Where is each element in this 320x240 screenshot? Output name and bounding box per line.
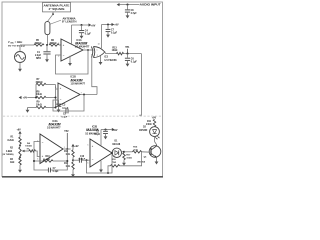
svg-text:= 1kHz: = 1kHz <box>15 42 23 44</box>
svg-text:4.7μF: 4.7μF <box>131 12 138 15</box>
svg-text:2.2pF: 2.2pF <box>35 55 42 57</box>
svg-text:+9V: +9V <box>91 24 96 27</box>
svg-text:1: 1 <box>84 48 85 50</box>
svg-text:5: 5 <box>55 87 56 89</box>
svg-text:1: 1 <box>64 147 65 149</box>
svg-text:6: 6 <box>87 163 88 165</box>
svg-text:4" SQUARE: 4" SQUARE <box>49 8 66 11</box>
svg-text:+9V: +9V <box>17 130 22 132</box>
svg-text:20.5kΩ: 20.5kΩ <box>43 159 50 161</box>
svg-text:NPO: NPO <box>36 58 41 60</box>
svg-text:1kΩ: 1kΩ <box>10 162 15 164</box>
svg-text:2: 2 <box>97 55 98 57</box>
svg-text:1/2 MAX4477: 1/2 MAX4477 <box>47 127 61 130</box>
svg-text:TP2: TP2 <box>64 131 69 133</box>
svg-text:10kΩ: 10kΩ <box>112 50 118 52</box>
svg-text:1/4 74HC86: 1/4 74HC86 <box>104 59 117 62</box>
svg-text:0.1μF: 0.1μF <box>94 134 101 136</box>
svg-text:5: 5 <box>87 145 88 147</box>
svg-text:100kΩ: 100kΩ <box>25 146 32 148</box>
svg-text:1/2 MAX4477: 1/2 MAX4477 <box>75 46 90 49</box>
svg-text:1: 1 <box>97 50 98 52</box>
svg-text:8" LENGTH: 8" LENGTH <box>62 22 77 24</box>
svg-text:R13: R13 <box>112 47 117 49</box>
svg-text:8.2kΩ: 8.2kΩ <box>8 140 14 142</box>
svg-text:7: 7 <box>81 93 82 95</box>
svg-text:7: 7 <box>113 151 114 153</box>
svg-text:+9V: +9V <box>74 146 79 148</box>
svg-text:0.1μF: 0.1μF <box>111 33 118 35</box>
svg-text:3: 3 <box>58 43 59 45</box>
svg-text:MAXIM: MAXIM <box>75 42 87 46</box>
svg-text:1N4148: 1N4148 <box>112 143 121 146</box>
svg-text:+9V: +9V <box>114 25 119 27</box>
svg-text:ANTENNA PLATE: ANTENNA PLATE <box>44 5 71 8</box>
svg-text:2: 2 <box>58 56 59 58</box>
svg-text:10kΩ: 10kΩ <box>126 158 132 160</box>
svg-text:+9V: +9V <box>23 98 28 100</box>
svg-text:0.1μF: 0.1μF <box>85 34 92 36</box>
svg-text:+9V: +9V <box>113 130 118 132</box>
svg-text:(10 TURNS): (10 TURNS) <box>2 154 14 156</box>
svg-text:AUDIO INPUT: AUDIO INPUT <box>140 4 162 7</box>
svg-text:1/2 MAX4477: 1/2 MAX4477 <box>71 83 86 86</box>
svg-text:CR5360: CR5360 <box>139 130 148 132</box>
svg-text:0.22μF: 0.22μF <box>79 159 86 161</box>
svg-text:6: 6 <box>55 102 56 104</box>
svg-text:0.1μF: 0.1μF <box>62 117 68 119</box>
svg-text:MAXIM: MAXIM <box>71 78 83 82</box>
svg-text:ANTENNA: ANTENNA <box>63 17 76 20</box>
svg-text:1kΩ: 1kΩ <box>66 154 71 156</box>
svg-text:5V TO 9V p-p: 5V TO 9V p-p <box>8 46 26 48</box>
svg-text:4.9kΩ: 4.9kΩ <box>6 150 12 153</box>
svg-text:1kΩ: 1kΩ <box>66 166 71 168</box>
svg-text:2: 2 <box>37 141 38 143</box>
svg-text:75Ω: 75Ω <box>112 162 116 164</box>
svg-text:0.1μF: 0.1μF <box>53 171 60 173</box>
svg-text:3: 3 <box>37 159 38 161</box>
svg-text:TP1: TP1 <box>125 47 130 49</box>
svg-text:MAXIM: MAXIM <box>49 122 61 126</box>
svg-text:0.1μF: 0.1μF <box>131 62 138 64</box>
svg-text:14: 14 <box>98 44 100 46</box>
svg-text:240Ω: 240Ω <box>146 123 152 126</box>
